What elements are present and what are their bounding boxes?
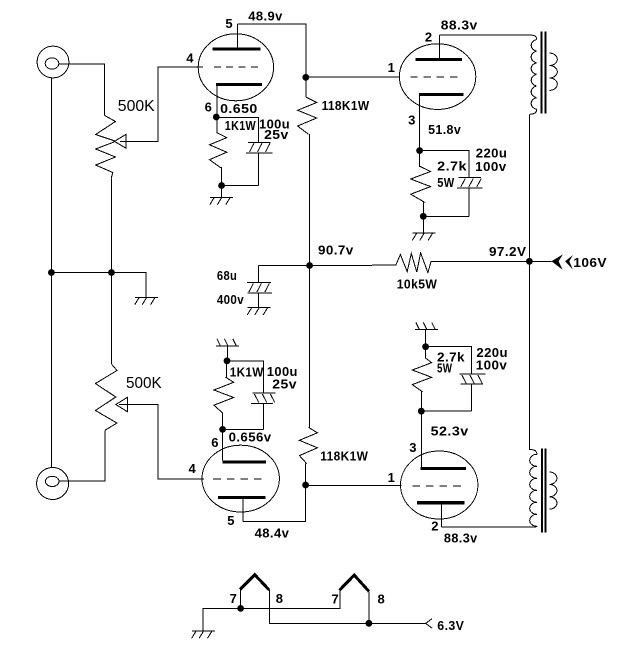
ground V1 cathode <box>210 197 233 204</box>
svg-text:25v: 25v <box>264 127 289 142</box>
svg-text:7: 7 <box>230 591 238 606</box>
svg-text:7: 7 <box>332 592 340 607</box>
wire V2 plate to transformer T1 primary <box>439 35 536 39</box>
wire C4 bottom to V3 cathode <box>223 428 264 430</box>
heater element V1 <box>240 575 269 590</box>
resistor R7 2.7k 5W bottom <box>412 347 431 412</box>
wire C3 bottom to V4 cathode <box>421 410 471 412</box>
V3 plate lead pin 5 <box>242 499 244 522</box>
ground input bus <box>135 297 158 304</box>
resistor R1 1K1W <box>210 118 227 186</box>
wire J1 to pot VR1 top <box>59 64 105 116</box>
triode V1 envelope <box>198 34 273 101</box>
resistor R3 118K1W top <box>298 97 317 134</box>
heater V1 pin7 leg <box>240 589 242 608</box>
junction V3 cathode <box>219 426 226 433</box>
wire C5 to 90.7v node <box>259 264 310 266</box>
V3 cathode bar <box>222 460 266 463</box>
V2 plate lead pin 2 <box>438 35 440 58</box>
wire 97.2V node to transformer T2 primary <box>529 261 537 454</box>
pentode V4 envelope <box>401 451 478 519</box>
V2 grid dashed <box>410 76 458 78</box>
capacitor C5 68u 400v <box>247 265 272 307</box>
V4 grid dashed <box>412 485 462 487</box>
input jack J2 <box>37 468 69 500</box>
junction R7 top <box>422 343 429 350</box>
junction R2 top <box>224 357 231 364</box>
wire heater pin8 to 6.3V bus <box>269 590 425 623</box>
wire T2 primary to V4 plate <box>442 526 531 528</box>
svg-text:500K: 500K <box>118 98 155 115</box>
wire R4 bottom to ground <box>422 216 424 233</box>
junction V2 cathode <box>416 147 423 154</box>
V3 cathode lead pin 6 <box>222 429 224 460</box>
capacitor C2 220u 100v <box>457 178 483 217</box>
V4 plate lead pin 2 <box>441 504 443 527</box>
svg-text:48.9v: 48.9v <box>248 9 283 24</box>
svg-text:52.3v: 52.3v <box>431 424 469 439</box>
node 97.2V junction <box>526 258 533 265</box>
ground C5 <box>247 308 270 315</box>
svg-text:4: 4 <box>186 51 194 66</box>
inverted ground V4 cathode network <box>415 322 438 329</box>
wire T1 primary to 97.2V node <box>528 114 530 261</box>
triode V3 envelope <box>202 445 279 512</box>
input jack J1 <box>37 46 69 78</box>
svg-text:100v: 100v <box>475 159 507 174</box>
wire left ground rail J1 to J2 <box>50 78 52 467</box>
svg-text:25v: 25v <box>272 376 297 391</box>
svg-text:1: 1 <box>388 60 396 75</box>
svg-text:5W: 5W <box>437 175 455 190</box>
junction pot rail <box>108 269 115 276</box>
supply arrowhead inner <box>565 255 573 270</box>
svg-text:2.7k: 2.7k <box>437 159 467 174</box>
ground V2 cathode <box>412 233 435 240</box>
junction heater pin 7 V1 <box>237 605 244 612</box>
V1 cathode lead pin 6 <box>216 86 218 117</box>
inverted ground V3 cathode network <box>216 339 239 346</box>
svg-text:0.650: 0.650 <box>220 101 258 116</box>
wire V1 plate to B+ dropper node <box>238 24 306 97</box>
V2 cathode bar <box>419 93 463 96</box>
wire ground to R2 top <box>226 346 228 361</box>
resistor R5 10k5W <box>310 253 530 273</box>
wire R2 top to C4 top <box>227 361 264 393</box>
svg-text:5W: 5W <box>437 360 453 375</box>
transformer T1 primary winding <box>529 40 536 115</box>
svg-text:68u: 68u <box>217 268 237 283</box>
svg-text:10k5W: 10k5W <box>397 277 438 292</box>
svg-text:118K1W: 118K1W <box>322 98 370 113</box>
junction V4 cathode <box>418 408 425 415</box>
wire heater ground bus <box>203 590 340 631</box>
heater element V3 <box>340 575 369 591</box>
capacitor C4 100u 25v bottom <box>251 393 276 429</box>
wire VR2 wiper to tube V3 grid <box>119 405 204 479</box>
svg-text:106V: 106V <box>573 255 607 270</box>
svg-text:2: 2 <box>431 519 439 534</box>
svg-text:1K1W: 1K1W <box>225 118 256 133</box>
V1 grid dashed <box>214 66 258 68</box>
supply arrowhead outer <box>552 254 564 269</box>
svg-text:400v: 400v <box>217 292 244 307</box>
V3 plate bar <box>218 496 265 499</box>
wire J2 to pot VR2 bottom <box>59 430 105 481</box>
wiper arrow VR2 <box>116 397 128 411</box>
transformer T1 core <box>542 31 546 113</box>
svg-text:5: 5 <box>225 16 233 31</box>
wire cathode to C2 top <box>420 151 470 178</box>
svg-text:1: 1 <box>388 470 396 485</box>
svg-text:5: 5 <box>227 513 235 528</box>
junction heater 6.3V <box>366 620 373 627</box>
V1 cathode bar <box>216 83 262 86</box>
wire C1 bottom to R1 bottom <box>222 186 259 198</box>
junction V1 cathode <box>213 114 220 121</box>
junction V4 grid node <box>302 482 309 489</box>
svg-text:48.4v: 48.4v <box>255 526 290 541</box>
V4 plate bar <box>417 501 464 504</box>
wire cathode junction to C1 <box>217 118 259 143</box>
transformer T2 core <box>542 449 546 533</box>
heater ground <box>192 631 215 638</box>
junction V2 grid node <box>302 74 309 81</box>
potentiometer VR1 500K <box>96 116 116 179</box>
svg-text:88.3v: 88.3v <box>444 531 478 546</box>
V1 plate lead pin 5 <box>237 24 239 47</box>
V3 grid dashed <box>213 478 263 480</box>
svg-text:6: 6 <box>211 435 219 450</box>
svg-text:6.3V: 6.3V <box>437 618 464 633</box>
svg-text:6: 6 <box>205 100 213 115</box>
potentiometer VR2 500K <box>95 364 117 430</box>
wire R3 to 90.7v node rail <box>309 134 311 427</box>
capacitor C3 220u 100v bottom <box>460 374 486 411</box>
wire R7 top to C3 top <box>426 347 472 375</box>
svg-text:118K1W: 118K1W <box>320 449 368 464</box>
V2 plate bar <box>415 58 462 61</box>
svg-text:8: 8 <box>276 591 284 606</box>
svg-text:3: 3 <box>409 440 417 455</box>
svg-text:2: 2 <box>425 30 433 45</box>
svg-text:8: 8 <box>378 592 386 607</box>
wire VR1 bottom to VR2 top rail <box>111 178 113 364</box>
ground bus wire y272 <box>51 273 145 298</box>
wire C2 bottom to R4 bottom <box>423 215 469 217</box>
resistor R4 2.7k 5W top <box>411 151 431 217</box>
heater V3 pin8 leg <box>368 591 370 623</box>
node 90.7v junction <box>306 262 313 269</box>
svg-text:1K1W: 1K1W <box>230 365 264 380</box>
transformer T2 primary winding <box>530 454 537 527</box>
svg-text:88.3v: 88.3v <box>441 17 478 32</box>
svg-text:97.2V: 97.2V <box>489 244 526 259</box>
junction left rail <box>48 269 55 276</box>
wire V3 plate to lower dropper rail <box>243 464 306 522</box>
V4 cathode bar <box>420 467 466 470</box>
wiper arrow VR1 <box>115 134 127 148</box>
transformer T1 secondary winding <box>550 53 558 90</box>
wire node to V2 grid <box>306 76 400 78</box>
svg-text:3: 3 <box>408 113 416 128</box>
svg-text:90.7v: 90.7v <box>318 243 354 258</box>
wire VR1 wiper to tube V1 grid <box>120 67 203 141</box>
wire ground to R7 top <box>425 329 427 346</box>
wire junction to V4 cathode pin 3 <box>420 411 422 467</box>
V2 cathode lead pin 3 <box>419 96 421 151</box>
svg-text:4: 4 <box>189 461 197 476</box>
wire 97.2V node stub to supply <box>529 260 551 262</box>
svg-text:0.656v: 0.656v <box>229 430 272 445</box>
svg-text:500K: 500K <box>126 375 162 392</box>
wire node to V4 grid <box>306 484 402 486</box>
transformer T2 secondary winding <box>549 472 557 509</box>
junction R4 bottom <box>420 213 427 220</box>
V1 plate bar <box>213 47 261 50</box>
resistor R2 1K1W bottom <box>214 361 234 430</box>
6.3V open arrowhead <box>426 619 432 629</box>
capacitor C1 100u 25v <box>246 142 273 185</box>
resistor R6 118K1W bottom <box>299 427 317 463</box>
svg-text:51.8v: 51.8v <box>428 122 461 137</box>
pentode V2 envelope <box>399 44 475 110</box>
junction R1 bottom <box>218 182 225 189</box>
svg-text:100v: 100v <box>476 358 508 373</box>
